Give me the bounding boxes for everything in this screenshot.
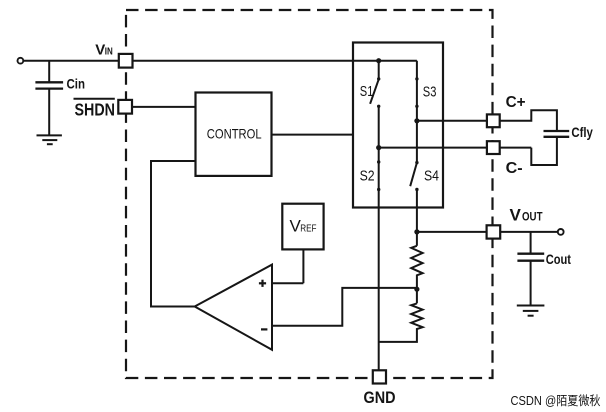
svg-text:C-: C-	[506, 160, 523, 177]
svg-text:CONTROL: CONTROL	[207, 125, 262, 141]
svg-text:Cfly: Cfly	[571, 125, 593, 140]
svg-text:S1: S1	[360, 84, 374, 100]
svg-text:CSDN @陌夏微秋: CSDN @陌夏微秋	[511, 394, 601, 408]
svg-text:V: V	[95, 41, 105, 58]
svg-text:GND: GND	[364, 388, 396, 407]
svg-text:C+: C+	[506, 94, 526, 111]
svg-text:S3: S3	[423, 85, 437, 101]
svg-text:SHDN: SHDN	[75, 100, 116, 120]
svg-text:OUT: OUT	[522, 212, 543, 224]
svg-text:S2: S2	[360, 168, 375, 184]
svg-text:Cin: Cin	[67, 76, 86, 92]
svg-text:V: V	[510, 206, 522, 225]
svg-text:IN: IN	[105, 46, 113, 57]
svg-text:REF: REF	[300, 223, 316, 234]
svg-text:Cout: Cout	[546, 252, 572, 267]
svg-text:S4: S4	[424, 168, 439, 184]
